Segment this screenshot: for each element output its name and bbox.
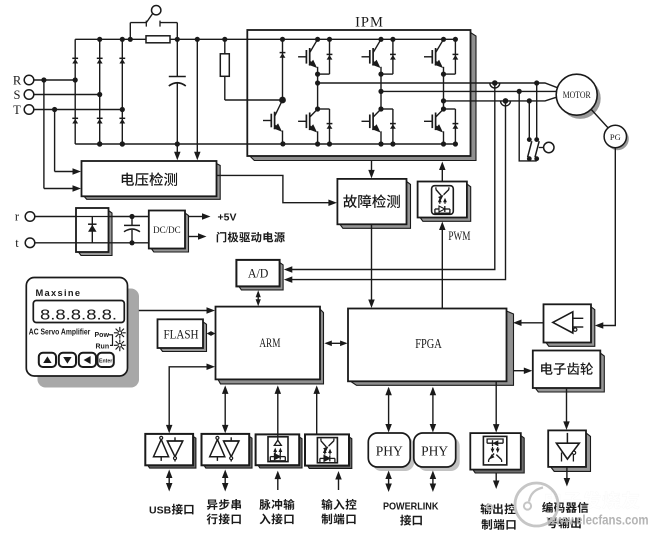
svg-text:PG: PG: [610, 132, 621, 142]
svg-text:USB: USB: [149, 505, 172, 517]
svg-text:POWERLINK: POWERLINK: [383, 501, 439, 512]
svg-text:Run: Run: [96, 344, 110, 351]
svg-text:Maxsine: Maxsine: [36, 288, 82, 298]
svg-text:S: S: [14, 88, 21, 102]
svg-text:MOTOR: MOTOR: [563, 91, 592, 101]
svg-text:ARM: ARM: [259, 335, 280, 350]
svg-text:8.8.8.8.8.: 8.8.8.8.8.: [40, 306, 117, 323]
svg-text:A/D: A/D: [248, 266, 269, 281]
svg-text:PHY: PHY: [376, 443, 403, 458]
svg-text:DC/DC: DC/DC: [153, 225, 181, 235]
svg-text:AC Servo Amplifier: AC Servo Amplifier: [29, 328, 90, 337]
svg-text:T: T: [13, 103, 21, 117]
svg-text:+5V: +5V: [218, 211, 237, 223]
svg-text:www.elecfans.com: www.elecfans.com: [546, 513, 649, 528]
svg-text:IPM: IPM: [355, 15, 384, 31]
svg-text:Enter: Enter: [99, 358, 112, 364]
svg-text:R: R: [13, 73, 22, 87]
svg-text:FLASH: FLASH: [164, 327, 199, 342]
svg-text:Pow: Pow: [95, 332, 110, 339]
svg-text:PHY: PHY: [421, 443, 448, 458]
svg-text:PWM: PWM: [448, 228, 470, 243]
svg-text:t: t: [15, 236, 19, 250]
svg-text:FPGA: FPGA: [415, 336, 442, 351]
